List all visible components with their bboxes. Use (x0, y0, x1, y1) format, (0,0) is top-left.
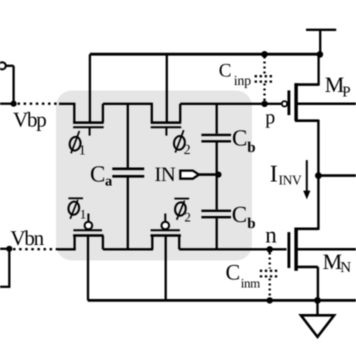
wire (8, 249, 10, 287)
transistor MP source lead (295, 83, 319, 86)
svg-text:N: N (340, 260, 351, 276)
transistor MP bulk lead (296, 103, 356, 106)
svg-text:Vbn: Vbn (10, 226, 44, 250)
svg-text:M: M (323, 249, 343, 274)
transistor PHI2B gate bubble (162, 222, 170, 230)
svg-text:1: 1 (79, 144, 86, 159)
capacitor Cinp plate1 dashed (255, 75, 275, 77)
transistor MN source lead (295, 228, 318, 231)
wire n-net right (179, 248, 286, 250)
ground triangle (301, 315, 334, 337)
svg-text:n: n (265, 223, 277, 248)
transistor PHI2B channel (151, 234, 181, 237)
transistor PHI2 bulk wire (166, 54, 168, 122)
node p (261, 101, 267, 107)
capacitor Ca plate1 (112, 168, 144, 171)
transistor MN gate bar (287, 232, 290, 268)
svg-text:2: 2 (184, 143, 191, 158)
svg-text:p: p (265, 106, 275, 128)
transistor MP gate bubble (282, 101, 287, 106)
capacitor Cb1 top wire (216, 104, 218, 134)
arrow IINV line (306, 160, 308, 193)
capacitor Cb1 bottom wire (216, 142, 218, 174)
wire supply stem (319, 30, 321, 55)
transistor PHI1B bulk wire (87, 236, 89, 301)
label phi1 (69, 131, 82, 153)
wire MN source up (317, 176, 319, 230)
transistor PHI1B gate bubble (85, 222, 93, 230)
transistor PHI1 right lead (102, 104, 104, 122)
wire IN (199, 173, 219, 176)
transistor PHI2B gate stem (164, 214, 166, 222)
svg-text:b: b (247, 216, 255, 232)
svg-text:C: C (232, 202, 247, 227)
wire p-net right (180, 103, 282, 105)
wire bottom ground rail (88, 299, 356, 302)
capacitor Cinm dotted top wire (269, 253, 271, 269)
wire dotted Vbn bias (13, 248, 58, 250)
svg-text:b: b (247, 140, 255, 156)
wire MP drain down (317, 120, 319, 176)
transistor PHI1 gate stem (89, 127, 91, 135)
terminal Vbp input circle (0, 62, 6, 69)
transistor PHI1B gate stem (87, 214, 89, 222)
wire from Vbp terminal (6, 65, 14, 67)
svg-text:C: C (90, 161, 105, 186)
svg-text:inp: inp (234, 74, 251, 89)
svg-text:inm: inm (241, 275, 260, 290)
svg-text:a: a (105, 173, 113, 189)
svg-text:INV: INV (279, 172, 302, 187)
capacitor Cinp plate2 dashed (255, 80, 275, 82)
capacitor Cb1 plate1 (201, 134, 231, 136)
transistor MP gate bar (287, 90, 290, 115)
node Vbn junction (6, 246, 12, 252)
transistor MN drain lead (295, 266, 318, 269)
terminal IN flag (180, 171, 199, 179)
transistor PHI1B channel (73, 234, 103, 237)
capacitor Cb1 plate2 (201, 140, 231, 142)
svg-text:C: C (232, 126, 247, 151)
transistor PHI1B gate bar (73, 229, 102, 231)
node Cinm bottom (267, 297, 273, 303)
wire dotted Vbp bias (18, 103, 60, 105)
transistor MP channel bar (294, 83, 298, 121)
shaded switch-cap region (56, 91, 252, 261)
svg-text:2: 2 (184, 210, 191, 225)
transistor PHI2B left lead (151, 236, 153, 250)
wire (0, 103, 15, 105)
wire p-net left (59, 103, 75, 105)
capacitor Cb2 bottom wire (216, 218, 218, 249)
svg-text:Vbp: Vbp (13, 107, 46, 131)
capacitor Ca bottom wire (127, 177, 129, 249)
transistor PHI1 gate bar (73, 126, 104, 128)
terminal Vbn input (0, 248, 10, 250)
node supply junction (317, 51, 324, 58)
svg-text:1: 1 (80, 207, 87, 222)
capacitor Cb2 top wire (216, 175, 218, 210)
wire (12, 66, 14, 104)
transistor PHI2 gate stem (165, 127, 167, 135)
node n (267, 246, 273, 252)
ground stem (316, 300, 318, 315)
capacitor Cb2 plate2 (201, 216, 231, 218)
transistor MN bulk lead (296, 248, 356, 251)
transistor PHI1 bulk wire (89, 54, 91, 122)
capacitor Cinm plate1 dashed (260, 270, 280, 272)
capacitor Ca top wire (127, 104, 129, 168)
wire top bulk rail (90, 53, 320, 56)
wire to MP source (317, 54, 319, 85)
label phi1bar (67, 198, 83, 219)
transistor PHI2 channel (151, 121, 182, 124)
transistor PHI1B right lead (102, 236, 104, 250)
transistor PHI2 gate bar (151, 126, 182, 128)
transistor PHI1B left lead (73, 236, 75, 250)
label phi2 (173, 130, 186, 152)
wire p-net mid (103, 103, 153, 105)
svg-text:IN: IN (155, 164, 176, 186)
svg-text:C: C (219, 61, 232, 82)
node Cinp top (261, 51, 268, 58)
wire n-net mid (103, 248, 153, 250)
transistor PHI2B right lead (178, 236, 180, 250)
transistor PHI1 left lead (73, 104, 75, 122)
transistor PHI2B bulk wire (165, 236, 167, 301)
transistor PHI2B gate bar (151, 229, 180, 231)
transistor PHI2 left lead (151, 104, 153, 122)
arrow IINV head (303, 191, 310, 200)
wire output (318, 174, 356, 177)
wire n-net left (58, 248, 76, 250)
node ground junction (314, 297, 321, 304)
node Vbp junction (11, 101, 17, 107)
node output (315, 172, 322, 179)
svg-text:I: I (270, 162, 278, 188)
svg-text:P: P (342, 85, 350, 101)
label phi2bar (174, 199, 189, 220)
transistor PHI1 channel (73, 121, 104, 124)
capacitor Ca plate2 (112, 175, 144, 178)
capacitor Cinm dotted bottom wire (269, 279, 271, 299)
capacitor Cinp dotted bottom wire (263, 84, 265, 102)
wire (0, 286, 10, 288)
svg-text:C: C (226, 259, 241, 284)
transistor MN channel bar (294, 228, 298, 271)
transistor MP drain lead (295, 119, 318, 122)
transistor PHI2 right lead (179, 104, 181, 122)
capacitor Cb2 plate1 (201, 210, 231, 212)
node IN junction (215, 172, 221, 178)
capacitor Cinm plate2 dashed (260, 275, 280, 277)
capacitor Cinp dotted top wire (263, 57, 265, 75)
wire MN drain down (317, 267, 319, 301)
supply VDD bar (306, 29, 336, 31)
